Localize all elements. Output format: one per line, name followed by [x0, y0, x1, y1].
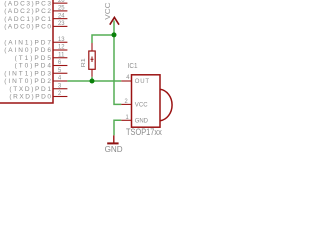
pin (AIN1)PD7 pin 13 [4, 37, 67, 47]
svg-text:R1: R1 [81, 58, 87, 67]
pin OUT pin 4 [126, 75, 149, 85]
svg-text:11: 11 [58, 52, 65, 58]
svg-text:VCC: VCC [135, 103, 148, 109]
svg-text:VCC: VCC [103, 2, 112, 20]
pin (ADC2)PC2 pin 25 [4, 6, 67, 16]
wire VCC vertical run to TSOP VCC pin [114, 21, 121, 105]
svg-text:OUT: OUT [135, 79, 150, 85]
junction node R1/PD2 net [90, 79, 95, 84]
pin (TXD)PD1 pin 3 [9, 83, 67, 93]
wire VCC horizontal to R1 top [92, 35, 114, 43]
svg-text:(INT1)PD3: (INT1)PD3 [4, 70, 51, 77]
wire net PD2 to TSOP OUT [67, 80, 121, 82]
svg-text:GND: GND [135, 118, 149, 124]
resistor R1 [89, 43, 95, 77]
pin (AIN0)PD6 pin 12 [4, 45, 67, 55]
svg-text:25: 25 [58, 6, 65, 12]
svg-text:(AIN1)PD7: (AIN1)PD7 [4, 39, 51, 46]
svg-text:(AIN0)PD6: (AIN0)PD6 [4, 47, 51, 54]
supply VCC arrow [110, 17, 119, 24]
pin (INT1)PD3 pin 5 [4, 68, 67, 78]
pin (ADC3)PC3 pin 26 [4, 0, 67, 7]
svg-text:26: 26 [58, 0, 65, 4]
pin (T0)PD4 pin 6 [15, 60, 68, 70]
pin (RXD)PD0 pin 2 [9, 91, 67, 101]
svg-text:(ADC3)PC3: (ADC3)PC3 [4, 0, 51, 7]
wire TSOP GND pin to ground symbol [114, 120, 121, 135]
pin (INT0)PD2 pin 4 [4, 76, 67, 86]
svg-text:(ADC2)PC2: (ADC2)PC2 [4, 8, 51, 15]
pin (ADC1)PC1 pin 24 [4, 13, 67, 23]
svg-text:TSOP17xx: TSOP17xx [126, 127, 162, 137]
svg-text:13: 13 [58, 37, 65, 43]
svg-text:IC1: IC1 [128, 63, 138, 70]
svg-text:24: 24 [58, 13, 65, 19]
svg-text:23: 23 [58, 21, 65, 27]
svg-text:(INT0)PD2: (INT0)PD2 [4, 78, 51, 85]
IC U1 ATmega8 (partial symbol box) [0, 0, 53, 103]
svg-text:(ADC0)PC0: (ADC0)PC0 [4, 24, 51, 31]
IC IC1 TSOP17xx IR receiver [121, 75, 172, 127]
ground GND symbol [107, 135, 118, 143]
wire R1 bottom to net [91, 77, 93, 82]
svg-text:(ADC1)PC1: (ADC1)PC1 [4, 16, 51, 23]
svg-text:12: 12 [58, 45, 65, 51]
pin (ADC0)PC0 pin 23 [4, 21, 67, 31]
svg-text:(TXD)PD1: (TXD)PD1 [9, 86, 51, 93]
junction node VCC/R1 [112, 32, 117, 37]
pin GND pin 1 [126, 115, 149, 124]
svg-text:GND: GND [105, 145, 123, 154]
pin (T1)PD5 pin 11 [15, 52, 68, 62]
pin VCC pin 2 [125, 99, 149, 109]
